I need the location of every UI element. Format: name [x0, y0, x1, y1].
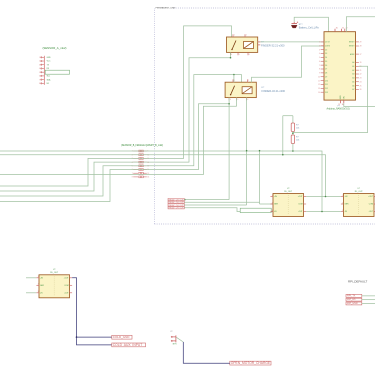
svg-text:D3: D3 — [325, 53, 327, 55]
wire U4 right pin4 down to COLD_AUX_INPUT — [72, 278, 112, 345]
connector J2 pin row 5 — [132, 165, 150, 168]
IC U1 left pin 9 — [319, 73, 327, 75]
svg-text:4: 4 — [319, 53, 320, 55]
wire P2 to OPEN_MOTOR_CHARGE — [183, 342, 230, 363]
svg-text:PERMANENT_UNIT: PERMANENT_UNIT — [156, 6, 177, 9]
svg-text:6: 6 — [249, 54, 250, 56]
svg-text:2: 2 — [272, 202, 273, 204]
module U3 body — [344, 194, 375, 217]
svg-text:U?: U? — [358, 188, 360, 190]
svg-text:D9: D9 — [325, 76, 327, 78]
svg-text:11: 11 — [318, 80, 320, 82]
svg-text:VCC: VCC — [47, 61, 51, 63]
IC U1 right pin A3 — [352, 73, 361, 76]
svg-text:RPI_GND: RPI_GND — [347, 302, 358, 305]
wire relay K2 bottom pin5 to row7 net — [236, 98, 238, 107]
module U4 body — [39, 275, 70, 298]
svg-text:2: 2 — [319, 45, 320, 47]
svg-text:31: 31 — [342, 28, 344, 30]
IC U1 right pin A6 — [352, 84, 361, 87]
svg-text:2: 2 — [342, 202, 343, 204]
svg-text:COLD_GND: COLD_GND — [113, 335, 131, 339]
module U2 right pin 6 — [298, 210, 306, 213]
junction net row1 / U2 drop — [259, 150, 261, 152]
connector J1 pin 4 — [39, 68, 50, 70]
svg-text:5: 5 — [39, 72, 40, 74]
svg-text:A2: A2 — [352, 69, 354, 72]
svg-text:U?: U? — [53, 269, 55, 271]
svg-text:23: 23 — [360, 78, 362, 80]
connector P2 small part — [170, 331, 177, 345]
junction relay K2 top pin1 / row5 net — [233, 74, 235, 76]
svg-text:7: 7 — [39, 79, 40, 81]
connector J1 pin 5 — [39, 71, 52, 73]
svg-text:16: 16 — [147, 177, 149, 179]
port label OPEN_MOTOR_CHARGE — [230, 361, 271, 365]
IC U1 right pin A7 — [352, 88, 361, 91]
module U2 body — [273, 194, 304, 217]
IC U1 left pin 2 — [319, 45, 331, 47]
module U4 left pin 2 — [36, 284, 44, 287]
module U4 left pin 1 — [36, 276, 43, 279]
module U2 left pin 2 — [270, 202, 278, 205]
svg-text:1: 1 — [234, 35, 235, 37]
svg-text:D12: D12 — [325, 88, 328, 90]
svg-text:1: 1 — [272, 195, 273, 197]
svg-text:COM: COM — [298, 204, 303, 206]
connector J2 pin row 4 — [132, 161, 150, 164]
svg-text:RESET: RESET — [349, 42, 355, 44]
svg-text:D4: D4 — [325, 57, 327, 59]
connector J1 pin 2 — [39, 60, 51, 62]
IC U1 top pin 32 — [345, 28, 348, 32]
wire net label RELAY_4 to RL_OUT U2 left pin3 — [184, 208, 273, 212]
svg-text:SCL: SCL — [47, 76, 51, 78]
connector J1 pin 3 — [39, 64, 50, 66]
wire into U4 left pin3 — [26, 292, 36, 294]
module U3 right pin 5 — [369, 202, 375, 205]
svg-text:14: 14 — [318, 92, 320, 94]
module U3 right pin 6 — [369, 210, 375, 213]
svg-text:25: 25 — [360, 85, 362, 87]
wire net label RELAY_1 to relay K2 pin4 column — [184, 199, 229, 201]
IC U1 top pin 30 — [335, 28, 338, 32]
svg-text:5: 5 — [319, 57, 320, 59]
junction relay K2 pin4 / row6 net — [228, 103, 230, 105]
svg-text:16: 16 — [342, 104, 344, 106]
wire relay K2 bottom pin6 down to net label 3 — [246, 98, 248, 205]
svg-text:D5: D5 — [325, 61, 327, 63]
wire relay K2 top pin3 to IC pin2 — [252, 46, 325, 82]
svg-text:10: 10 — [318, 76, 320, 78]
junction relay K1 pin4 / row4 net — [230, 57, 232, 59]
wire diagonal from P2 — [176, 337, 183, 342]
svg-text:RPI_RX: RPI_RX — [347, 298, 356, 301]
resistor R2 — [291, 135, 294, 144]
net label attach dot — [185, 199, 186, 200]
svg-text:5: 5 — [239, 54, 240, 56]
svg-text:3: 3 — [319, 49, 320, 51]
svg-text:K?: K? — [262, 87, 265, 89]
wire net label RELAY_2 toward RL_OUT U2 — [184, 202, 259, 204]
junction bypass / net row2 — [282, 154, 284, 156]
svg-text:COLD_AUX_INPUT: COLD_AUX_INPUT — [113, 343, 143, 347]
IC U1 right pin A2 — [352, 69, 361, 72]
relay K2 bottom pin 5 — [236, 98, 238, 101]
IC U1 right pin AREF 27 — [350, 53, 362, 56]
svg-text:D0/RX: D0/RX — [325, 45, 331, 47]
module U3 left pin 3 — [341, 210, 348, 213]
IC U1 right pin A0 — [352, 61, 361, 64]
connector J2 pin row 1 — [132, 150, 149, 153]
svg-text:6: 6 — [247, 99, 248, 101]
svg-text:1: 1 — [38, 276, 39, 278]
IC U1 bottom pin 15 — [338, 95, 342, 106]
wire U2 right pin4 to U3 left pin1 — [306, 196, 341, 198]
svg-text:A6: A6 — [352, 84, 354, 87]
IC U1 right pin RESET 28 — [349, 46, 362, 48]
svg-text:6: 6 — [319, 61, 320, 63]
battery BT1 symbol — [292, 23, 298, 25]
IC U1 left pin 1 — [319, 42, 331, 44]
IC U1 left pin 3 — [319, 49, 327, 51]
IC U1 left pin 8 — [319, 69, 327, 71]
svg-text:U?: U? — [170, 331, 172, 333]
module U4 right pin 5 — [64, 284, 72, 287]
svg-text:30: 30 — [336, 28, 338, 30]
IC U1 left pin 12 — [318, 84, 328, 86]
svg-text:1: 1 — [39, 57, 40, 59]
svg-text:2: 2 — [248, 80, 249, 82]
wire R1 top bypass vertical to net row2 — [282, 116, 284, 155]
wire IC A1 pin to resistor divider middle node — [293, 66, 368, 132]
svg-text:OPEN_MOTOR_CHARGE: OPEN_MOTOR_CHARGE — [231, 361, 271, 365]
IC U1 left pin 10 — [318, 76, 327, 78]
relay K1 switch symbol — [232, 41, 236, 50]
wire into RL_OUT U2 left pin2 — [260, 203, 274, 205]
module U2 right pin 4 — [298, 195, 306, 198]
wire RPI_RX to right edge — [362, 299, 375, 301]
svg-text:RPI_DEFAULT: RPI_DEFAULT — [348, 279, 367, 283]
wire branch to COLD_GND — [77, 336, 113, 338]
IC U1 right pin A4 — [352, 77, 361, 80]
net label RPI_RX — [346, 298, 362, 301]
svg-text:13: 13 — [318, 88, 320, 90]
relay K1 bottom pin 5 — [237, 52, 239, 55]
wire U2 right pin6 to U3 left pin3 — [306, 211, 341, 213]
connector J1 pin 7 — [39, 78, 51, 81]
wire into U4 left pin1 — [26, 277, 36, 279]
relay K2 top pin 2 — [246, 79, 248, 82]
wire between R1 and R2 — [292, 132, 294, 136]
svg-text:FINDER-32.21-x300: FINDER-32.21-x300 — [262, 89, 286, 93]
relay K1 right pin stubs — [258, 42, 261, 45]
module U4 left pin 3 — [36, 291, 43, 294]
wire RPI_GND to right edge — [362, 302, 375, 304]
connector J1 body line — [43, 56, 45, 85]
svg-text:D13: D13 — [325, 92, 328, 94]
wire IC top pin 32 to right edge — [346, 17, 375, 32]
svg-text:10k: 10k — [296, 128, 299, 130]
svg-text:GND: GND — [47, 57, 52, 59]
wire net row1 drop to RL_OUT U2 pin2 — [259, 151, 261, 203]
relay K2 coil symbol — [242, 87, 252, 94]
resistor R1 — [291, 123, 294, 132]
relay K2 bottom pin 4 — [228, 98, 230, 101]
module U3 left pin 1 — [341, 195, 348, 198]
svg-text:RPI_TX: RPI_TX — [347, 294, 356, 297]
svg-text:(SENSOR_A_mk2): (SENSOR_A_mk2) — [43, 46, 67, 50]
net name box on J1 pin 5 — [45, 70, 69, 74]
module U2 left pin 1 — [270, 195, 277, 198]
svg-text:R?: R? — [296, 125, 299, 127]
svg-text:3: 3 — [272, 210, 273, 212]
connector J2 pin row 8 — [132, 176, 150, 179]
hierarchical block PERMANENT_UNIT border — [155, 8, 375, 224]
svg-text:NC: NC — [47, 83, 50, 85]
port label COLD_AUX_INPUT — [112, 343, 146, 347]
module U3 left pin 2 — [341, 202, 349, 205]
IC U1 right pin A5 — [352, 80, 361, 83]
net label RELAY_CH_OUT3 — [168, 204, 185, 207]
svg-text:2: 2 — [246, 35, 247, 37]
svg-text:A3: A3 — [352, 73, 354, 76]
relay K2 body — [225, 82, 256, 97]
net label RPI_GND — [346, 302, 362, 305]
wire net row6 staircase and riser to relay K2 bottom — [0, 104, 229, 202]
svg-text:D2: D2 — [325, 49, 327, 51]
IC U1 right pin A1 — [352, 65, 361, 68]
connector J2 pin row 2 — [132, 154, 150, 157]
relay K1 top pin 1 — [232, 34, 234, 37]
svg-text:RL_OUT: RL_OUT — [355, 191, 364, 193]
svg-text:A7: A7 — [352, 88, 354, 91]
svg-text:D10: D10 — [325, 80, 328, 82]
wire relay K1 right pin to IC pin1 — [258, 41, 324, 43]
svg-text:12: 12 — [318, 84, 320, 86]
svg-text:8: 8 — [39, 83, 40, 85]
IC U1 top pin 31 — [342, 28, 345, 32]
IC U1 left pin 13 — [318, 88, 328, 90]
wire net row1 left-edge to output column — [0, 151, 322, 212]
svg-text:19: 19 — [360, 62, 362, 64]
svg-text:RELAY_CH_OUT4: RELAY_CH_OUT4 — [169, 207, 185, 210]
IC U1 left pin 11 — [318, 80, 328, 82]
module U4 right pin 6 — [64, 291, 72, 294]
svg-text:SDA: SDA — [47, 78, 51, 81]
svg-text:MTR: MTR — [173, 344, 177, 346]
connector J2 pin row 7 — [132, 172, 150, 175]
svg-text:24: 24 — [360, 81, 362, 83]
wire battery to IC top pin — [294, 17, 328, 32]
junction divider middle node — [292, 132, 294, 134]
relay K1 top pin 2 — [244, 34, 246, 37]
wire net row3 staircase and riser to relay K1 top — [0, 26, 232, 186]
svg-text:RESET: RESET — [349, 46, 355, 48]
svg-text:7: 7 — [319, 65, 320, 67]
junction blue wire branch — [76, 336, 78, 338]
svg-text:Battery_Cell_LiPo: Battery_Cell_LiPo — [299, 26, 320, 29]
junction relay K2 pin6 / net row1 — [246, 150, 248, 152]
svg-text:27: 27 — [360, 54, 362, 56]
svg-text:1: 1 — [342, 195, 343, 197]
svg-text:U?: U? — [287, 188, 289, 190]
svg-text:26: 26 — [360, 89, 362, 91]
svg-text:3: 3 — [342, 210, 343, 212]
junction net row2 column / pin4 wire — [325, 196, 327, 198]
svg-text:4: 4 — [39, 68, 40, 70]
wire relay K1 bottom pin4 to net row4 — [230, 52, 232, 57]
svg-text:9: 9 — [319, 73, 320, 75]
svg-text:RL_OUT: RL_OUT — [50, 272, 59, 274]
relay K1 bottom pin 6 — [247, 52, 249, 55]
relay K1 bottom pin 4 — [230, 52, 232, 55]
svg-text:4: 4 — [230, 99, 231, 101]
module U4 right pin 4 — [64, 276, 72, 279]
svg-text:3: 3 — [38, 291, 39, 293]
wire IC bottom pin to right edge — [344, 103, 375, 106]
svg-text:2: 2 — [39, 61, 40, 63]
svg-text:Arduino_NANO(V3.0): Arduino_NANO(V3.0) — [327, 108, 350, 111]
svg-text:D8: D8 — [325, 73, 327, 75]
svg-text:RL_OUT: RL_OUT — [284, 191, 293, 193]
svg-text:4: 4 — [231, 54, 232, 56]
svg-text:8: 8 — [319, 69, 320, 71]
wire RPI_TX to right edge — [362, 295, 375, 297]
module U2 left pin 3 — [270, 210, 277, 213]
wire net row4 staircase and riser under relay K1 — [0, 58, 231, 191]
IC U1 left pin 5 — [319, 57, 327, 59]
net label RELAY_CH_OUT1 — [168, 198, 185, 201]
svg-text:A5: A5 — [352, 80, 354, 83]
svg-text:D11: D11 — [325, 84, 328, 86]
IC U1 left pin 6 — [319, 61, 327, 63]
net label RELAY_CH_OUT2 — [168, 201, 185, 204]
relay K2 bottom pin 6 — [246, 98, 248, 101]
svg-text:COM: COM — [64, 285, 69, 287]
wire net label RELAY_3 to relay K2 pin6 column — [184, 204, 246, 206]
IC U1 left pin 4 — [319, 53, 327, 55]
relay K2 top pin 1 — [232, 79, 234, 82]
wire R1 top bypass horizontal — [283, 115, 293, 117]
connector J2 pin row 3 — [132, 158, 149, 161]
svg-text:29: 29 — [360, 42, 362, 44]
svg-text:A1: A1 — [352, 65, 354, 68]
svg-text:D7: D7 — [325, 69, 327, 71]
svg-text:R?: R? — [296, 137, 299, 139]
port label COLD_GND — [112, 335, 132, 339]
svg-text:5: 5 — [237, 99, 238, 101]
svg-text:6: 6 — [39, 76, 40, 78]
IC U1 bottom pin 16 — [342, 96, 346, 106]
svg-text:COM: COM — [369, 204, 374, 206]
net label RPI_TX — [346, 294, 362, 297]
wire R2 bottom to net row1 — [292, 144, 294, 152]
svg-text:3: 3 — [39, 64, 40, 66]
connector J1 pin 6 — [39, 75, 50, 77]
svg-text:RX: RX — [47, 68, 50, 70]
svg-text:1: 1 — [319, 42, 320, 44]
wire relay K2 bottom pin4 down to net label 1 — [228, 98, 230, 200]
relay K2 switch symbol — [231, 86, 235, 95]
connector J1 pin 8 — [39, 83, 50, 85]
svg-text:10k: 10k — [296, 140, 299, 142]
wire resistor R1 top stub — [292, 116, 294, 123]
wire net row2 left-edge to output column — [0, 155, 326, 197]
svg-text:21: 21 — [360, 70, 362, 72]
svg-text:A0: A0 — [352, 61, 354, 64]
svg-text:D6: D6 — [325, 65, 327, 67]
connector J2 pin row 6 — [132, 169, 150, 172]
svg-text:A4: A4 — [352, 77, 354, 80]
wire net row7 to relay K2 bottom pin2 — [0, 106, 237, 174]
net label RELAY_CH_OUT4 — [168, 207, 185, 210]
svg-text:AREF: AREF — [350, 53, 355, 56]
connector J1 pin 1 — [39, 57, 51, 59]
svg-text:(SENSOR_B_FEMALE QWERT_B_mk2): (SENSOR_B_FEMALE QWERT_B_mk2) — [121, 144, 163, 147]
IC U1 left pin 7 — [319, 65, 327, 67]
IC U1 right pin RESET 29 — [349, 42, 362, 44]
junction R2 bottom / net row1 — [292, 150, 294, 152]
relay K1 body — [227, 37, 258, 52]
svg-text:22: 22 — [360, 74, 362, 76]
svg-text:FINDER-32.21-x300: FINDER-32.21-x300 — [261, 43, 285, 47]
wire net row5 staircase and riser to relay K2 top — [0, 75, 242, 196]
svg-text:2: 2 — [38, 284, 39, 286]
IC U1 left pin 14 — [318, 92, 328, 94]
svg-text:TX: TX — [47, 64, 50, 66]
svg-text:28: 28 — [360, 46, 362, 48]
svg-text:8: 8 — [132, 177, 133, 179]
IC U1 Arduino Nano body — [324, 32, 356, 100]
net name box on U2 pin3 wire — [240, 208, 271, 212]
junction net row1 column / pin6 wire — [321, 211, 323, 213]
relay K1 coil symbol — [244, 42, 254, 49]
module U3 right pin 4 — [368, 195, 375, 198]
module U2 right pin 5 — [298, 202, 306, 205]
wire relay K2 top pin1 riser — [233, 75, 235, 83]
